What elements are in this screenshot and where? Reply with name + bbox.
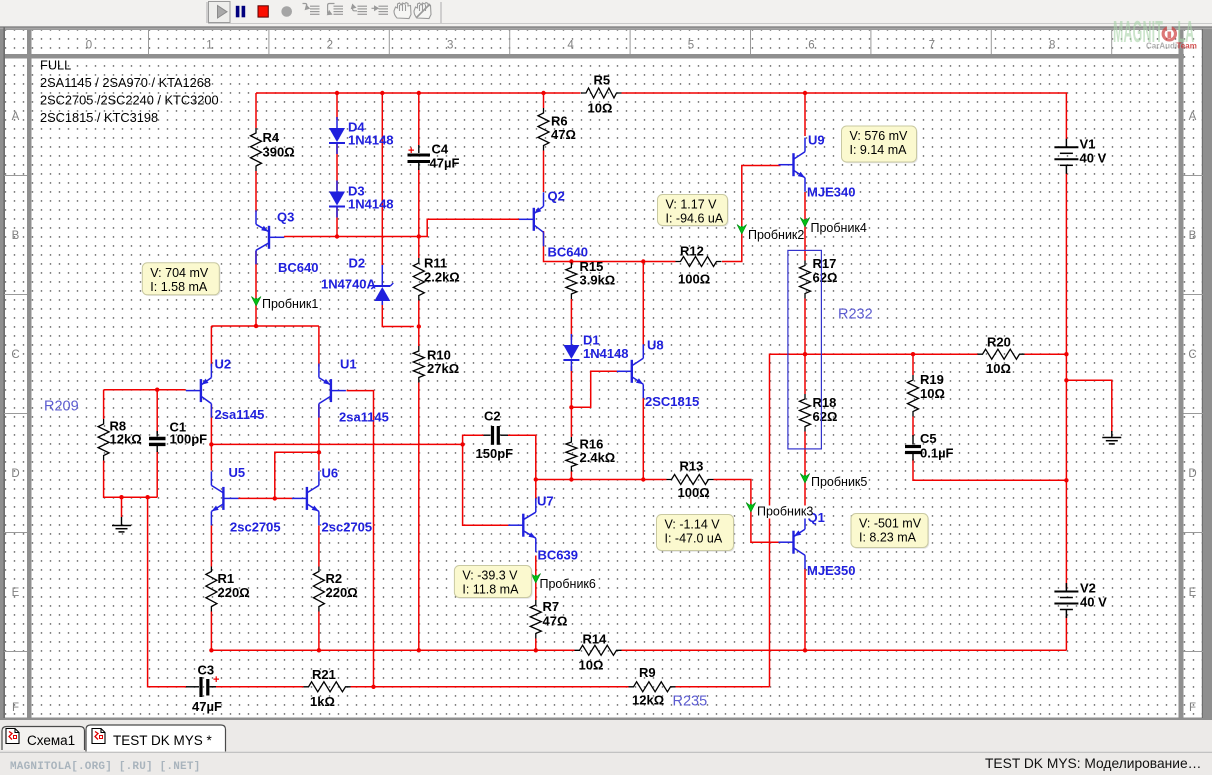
label D3 (348, 184, 394, 212)
svg-text:100Ω: 100Ω (678, 485, 710, 500)
wire: D3 bottom to base net (336, 207, 338, 237)
svg-text:BC639: BC639 (538, 548, 578, 563)
wire: R16 bottom to drive net (570, 472, 572, 480)
wire: U1 collector to mirror node (318, 405, 320, 453)
wire: U1 base to feedback column (347, 391, 374, 687)
resistor R19 (908, 372, 945, 417)
junction: R14 net/Q1 collector (803, 648, 807, 652)
svg-text:B: B (12, 230, 20, 242)
wire: R10 top connection (418, 327, 420, 347)
svg-text:R21: R21 (312, 667, 336, 682)
wire: C1 bottom drop (156, 451, 158, 497)
svg-text:390Ω: 390Ω (263, 145, 295, 160)
svg-text:R9: R9 (639, 665, 656, 680)
svg-text:+: + (408, 145, 414, 157)
svg-text:47µF: 47µF (192, 699, 222, 714)
junction: U2 base net/C1 (155, 388, 159, 392)
net label R235 (673, 694, 708, 710)
probe Пробник3 (746, 503, 813, 519)
svg-text:1N4740A: 1N4740A (321, 277, 377, 292)
svg-text:27kΩ: 27kΩ (427, 361, 459, 376)
svg-text:Пробник2: Пробник2 (748, 228, 804, 242)
wire: U9 collector from rail (804, 93, 806, 136)
junction: R14 net/R10 (417, 648, 421, 652)
wire: R15 top tap (570, 262, 572, 263)
label Q3 (277, 210, 318, 276)
label Q1 (807, 510, 855, 578)
probe Пробник4 (800, 218, 867, 236)
resistor R8 (98, 419, 142, 461)
net label R232 (838, 307, 873, 323)
ruler: row letters (4, 111, 1203, 714)
junction: drive net/U8 emitter (641, 477, 645, 481)
net label R209 (44, 399, 79, 415)
schematic title text block (40, 58, 219, 126)
svg-text:R18: R18 (813, 395, 837, 410)
junction: drive net/C2-U7 (534, 477, 538, 481)
svg-text:47µF: 47µF (430, 156, 460, 171)
svg-text:TEST DK MYS *: TEST DK MYS * (113, 733, 213, 748)
wire: U5 emitter to R1 (210, 526, 212, 567)
resistor R2 (313, 567, 357, 612)
measurement box probe5 (851, 514, 929, 549)
svg-text:I: -47.0 uA: I: -47.0 uA (665, 532, 723, 546)
wire: C2 right to U7 collector node (508, 435, 536, 479)
junction: base net/D3 (335, 234, 339, 238)
wire: U8 collector from R12 net (642, 262, 644, 351)
svg-text:2sc2705: 2sc2705 (230, 520, 281, 535)
svg-text:V: 704 mV: V: 704 mV (150, 266, 209, 280)
wire: Q2 collector to R12/R15 net (544, 231, 676, 262)
svg-text:1N4148: 1N4148 (583, 346, 629, 361)
wire: U2 emitter drop (210, 326, 212, 367)
wire: Q3 collector down to diff pair node (255, 251, 257, 326)
svg-text:5: 5 (688, 40, 694, 52)
wire: U9 emitter to R17 (804, 192, 806, 261)
ground (right rail divider) (1102, 431, 1121, 444)
svg-text:R20: R20 (987, 335, 1011, 350)
svg-text:U5: U5 (229, 465, 246, 480)
wire: R7 bottom to R14 net (535, 639, 537, 651)
diode D4 (1N4148) (329, 117, 345, 154)
label D1 (583, 333, 629, 362)
transistor Q2 (BC640 PNP) (519, 192, 544, 246)
svg-text:U8: U8 (647, 338, 664, 353)
junction: R8 net/C3 drop (145, 495, 149, 499)
svg-text:R235: R235 (673, 694, 708, 710)
diode D1 (1N4148) (563, 334, 579, 371)
svg-text:U2: U2 (215, 357, 232, 372)
wire: U1 emitter drop (318, 326, 320, 367)
svg-text:R14: R14 (583, 632, 608, 647)
wire: D1 bottom to R16 node (570, 366, 572, 407)
wire: R19 top connection (912, 354, 914, 375)
svg-text:U7: U7 (537, 494, 554, 509)
svg-text:C: C (1188, 349, 1196, 361)
label U6 (322, 466, 373, 535)
junction: C2/U7-base corner node (460, 442, 464, 446)
svg-text:C3: C3 (198, 663, 215, 678)
junction: rail/C4 (417, 91, 421, 95)
resistor R15 (566, 259, 615, 299)
resistor R5 (581, 73, 622, 116)
svg-text:1N4148: 1N4148 (348, 197, 394, 212)
svg-text:V1: V1 (1080, 136, 1096, 151)
svg-text:U1: U1 (340, 357, 357, 372)
measurement box probe1 (142, 263, 220, 296)
svg-text:12kΩ: 12kΩ (632, 693, 664, 708)
resistor R14 (575, 632, 622, 673)
wire: mirror node to U6 collector (318, 452, 320, 470)
svg-text:I: 9.14 mA: I: 9.14 mA (850, 143, 908, 157)
resistor R1 (206, 567, 250, 612)
svg-text:A: A (12, 111, 20, 123)
svg-text:V: 1.17 V: V: 1.17 V (666, 198, 718, 212)
wire: output node to R18 top (804, 354, 806, 394)
svg-text:62Ω: 62Ω (813, 409, 838, 424)
svg-text:BC640: BC640 (548, 245, 588, 260)
capacitor C4 (47uF polarized) (408, 142, 460, 171)
junction: feedback tap R21-R9 (371, 685, 375, 689)
svg-text:0: 0 (86, 40, 92, 52)
resistor R9 (629, 665, 676, 708)
wire: R17 bottom to output node (804, 299, 806, 355)
resistor R16 (566, 437, 615, 472)
svg-text:Team: Team (1177, 42, 1197, 51)
label D4 (348, 120, 394, 148)
resistor R21 (304, 667, 351, 709)
svg-text:12kΩ: 12kΩ (110, 432, 142, 447)
wire: U2/U5 collector link (210, 444, 212, 470)
wire: U2 base net (104, 389, 186, 391)
junction: D2-R11-R10 node (417, 324, 421, 328)
svg-text:220Ω: 220Ω (218, 585, 250, 600)
block outline R232 (788, 250, 822, 449)
wire: C2 left lead net (463, 435, 484, 444)
wire: R2 bottom to R14 net (318, 612, 320, 651)
wire: U7 emitter to R7 (535, 556, 537, 601)
wire: R12 right to U9 base riser (722, 166, 781, 262)
toolbar: run/play button (209, 2, 231, 23)
wire: U5-U6 base net (238, 497, 293, 499)
wire: R14 net right part (622, 649, 1067, 651)
wire: U6 emitter to R2 (318, 526, 320, 567)
svg-text:C2: C2 (484, 409, 501, 424)
transistor Q3 (BC640 PNP) (256, 210, 284, 264)
svg-text:R1: R1 (218, 571, 235, 586)
svg-text:10Ω: 10Ω (579, 658, 604, 673)
svg-text:A: A (1189, 111, 1197, 123)
svg-text:2SC1815 / KTC3198: 2SC1815 / KTC3198 (40, 110, 158, 125)
measurement box probe2 (658, 195, 729, 227)
svg-text:40 V: 40 V (1080, 150, 1107, 165)
svg-text:I: 11.8 mA: I: 11.8 mA (462, 583, 519, 597)
wire: R8 column top (103, 390, 105, 419)
wire: D2 branch from rail (381, 93, 383, 265)
resistor R6 (538, 108, 576, 151)
svg-text:I: -94.6 uA: I: -94.6 uA (666, 212, 724, 226)
svg-text:MAGNITOLA[.ORG] [.RU] [.NET]: MAGNITOLA[.ORG] [.RU] [.NET] (10, 761, 200, 773)
wire: U8 base path (571, 371, 620, 407)
svg-text:F: F (1189, 702, 1196, 714)
label U9 (807, 133, 855, 200)
svg-text:R2: R2 (326, 571, 343, 586)
svg-text:10Ω: 10Ω (588, 101, 613, 116)
transistor U6 (2sc2705 NPN) (292, 471, 319, 525)
wire: C5 bottom to rail (913, 460, 1066, 481)
svg-text:40 V: 40 V (1080, 595, 1107, 610)
svg-text:10Ω: 10Ω (986, 361, 1011, 376)
junction: base net/C4-R11 (417, 234, 421, 238)
svg-text:8: 8 (1049, 40, 1055, 52)
svg-text:E: E (1189, 587, 1197, 599)
svg-text:C5: C5 (920, 431, 937, 446)
junction: diff emitters/Q3 (254, 324, 258, 328)
junction: mirror node U1/U6 (317, 450, 321, 454)
svg-text:6: 6 (808, 40, 814, 52)
svg-text:2.4kΩ: 2.4kΩ (580, 450, 616, 465)
svg-text:I: 8.23 mA: I: 8.23 mA (859, 531, 917, 545)
svg-text:Пробник5: Пробник5 (811, 475, 867, 489)
svg-text:Q2: Q2 (548, 189, 565, 204)
svg-text:2SC1815: 2SC1815 (645, 394, 699, 409)
status bar text (10, 756, 1201, 773)
capacitor C5 (0.1uF) (905, 431, 954, 461)
junction: rail/C5 (1064, 478, 1068, 482)
svg-text:2SC2705 /2SC2240 / KTC3200: 2SC2705 /2SC2240 / KTC3200 (40, 93, 219, 108)
watermark MAGNITOLA CarAudio Team (1113, 16, 1194, 50)
dc source V1 (40V) (1054, 136, 1106, 174)
wire: R9 right to output column (676, 686, 770, 688)
svg-text:Пробник1: Пробник1 (262, 297, 318, 311)
svg-text:1kΩ: 1kΩ (310, 694, 335, 709)
wire: R15 bottom to D1 (570, 299, 572, 340)
junction: rail/R20 (1064, 352, 1068, 356)
wire: U7 collector stub (535, 480, 537, 501)
probe Пробник2 (737, 225, 804, 243)
junction: R12 net/U8 collector (641, 259, 645, 263)
svg-text:2sa1145: 2sa1145 (215, 407, 265, 422)
svg-text:MJE350: MJE350 (807, 563, 855, 578)
wire: C3 right to R21 (211, 686, 304, 688)
junction: mirror bases (273, 496, 277, 500)
svg-text:Пробник6: Пробник6 (540, 577, 596, 591)
svg-text:V: -39.3 V: V: -39.3 V (462, 569, 518, 583)
wire: U7 base drop (463, 444, 509, 525)
svg-text:2sc2705: 2sc2705 (322, 520, 373, 535)
wire: Q1 collector down to V2- net (804, 568, 806, 650)
wire: R10 bottom long drop to R14 net (418, 383, 420, 651)
svg-text:100pF: 100pF (170, 432, 208, 447)
svg-text:10Ω: 10Ω (920, 386, 945, 401)
svg-text:TEST DK MYS: Моделирование…: TEST DK MYS: Моделирование… (985, 756, 1201, 771)
junction: rail/D4 (335, 91, 339, 95)
resistor R10 (413, 346, 459, 383)
svg-text:U6: U6 (322, 466, 339, 481)
svg-text:V: -501 mV: V: -501 mV (859, 517, 922, 531)
svg-text:47Ω: 47Ω (551, 127, 576, 142)
wire: R19 bottom to C5 (912, 417, 914, 437)
capacitor C1 (100pF) (149, 420, 207, 453)
svg-text:BC640: BC640 (278, 260, 318, 275)
svg-text:7: 7 (929, 40, 935, 52)
transistor Q1 (MJE350 PNP) (779, 515, 806, 569)
sheet tab: TEST DK MYS * (active) (86, 725, 226, 752)
diode D3 (1N4148) (329, 181, 345, 218)
wire: R20 right to rail (1025, 353, 1067, 355)
toolbar: stop button (258, 6, 268, 17)
junction: rail/D2 (380, 91, 384, 95)
svg-text:D: D (1188, 468, 1196, 480)
svg-text:Схема1: Схема1 (27, 733, 75, 748)
probe Пробник6 (531, 574, 596, 592)
svg-text:R5: R5 (594, 73, 611, 88)
zener diode D2 (1N4740A) (371, 265, 393, 305)
capacitor C2 (150pF) (476, 409, 514, 462)
resistor R18 (800, 394, 838, 432)
junction: R8 net/gnd1 (119, 495, 123, 499)
label U8 (645, 338, 699, 410)
transistor U2 (2sa1145 PNP) (186, 364, 212, 418)
svg-text:C4: C4 (432, 142, 449, 157)
wire: R11 top connection (418, 237, 420, 259)
label D2 (321, 256, 377, 292)
svg-text:0.1µF: 0.1µF (920, 446, 954, 461)
junction: R12 net/R15 (569, 259, 573, 263)
resistor R13 (667, 459, 714, 501)
transistor U8 (2SC1815 NPN) (617, 344, 644, 398)
wire: R8 column bottom (104, 461, 158, 498)
resistor R20 (978, 335, 1025, 377)
wire: R4 bottom to Q3 emitter (255, 171, 257, 212)
ruler: column numbers (86, 29, 1112, 54)
resistor R17 (800, 256, 838, 299)
wire: C1 top drop (156, 390, 158, 434)
transistor U7 (BC639 NPN) (508, 498, 536, 552)
transistor U9 (MJE340 NPN) (779, 138, 806, 192)
wire: R1 bottom to R14 net (210, 612, 212, 651)
svg-text:4: 4 (567, 40, 574, 52)
wire: +rail top from R4 top node to R5 left (256, 92, 581, 94)
wire: output node right to R19/R20 (805, 353, 978, 355)
svg-text:Q3: Q3 (277, 210, 294, 225)
resistor R12 (676, 244, 722, 287)
wire: R13 right to Q1 base (714, 480, 780, 543)
svg-text:V: 576 mV: V: 576 mV (850, 129, 909, 143)
svg-text:V2: V2 (1080, 581, 1096, 596)
svg-text:R4: R4 (263, 130, 280, 145)
junction: rail/gnd2 (1064, 378, 1068, 382)
wire: R21 right to R9 feedback tap (351, 686, 629, 688)
svg-text:Пробник3: Пробник3 (757, 505, 813, 519)
junction: R14 net/R7 (534, 648, 538, 652)
wire: R6 bottom to Q2 emitter (543, 151, 545, 193)
svg-text:Пробник4: Пробник4 (811, 221, 867, 235)
svg-text:R12: R12 (680, 244, 704, 259)
wire: R16 top connection (570, 407, 572, 437)
svg-text:R17: R17 (813, 256, 837, 271)
resistor R4 (251, 128, 295, 171)
svg-text:R232: R232 (838, 307, 873, 323)
label U5 (229, 465, 281, 535)
wire: C4 bottom to base net (418, 169, 420, 237)
wire: diff pair emitters top (211, 325, 319, 327)
svg-text:1: 1 (206, 40, 212, 52)
svg-text:R11: R11 (424, 256, 447, 271)
junction: D1-R16-U8base node (569, 405, 573, 409)
svg-text:1N4148: 1N4148 (348, 133, 394, 148)
svg-text:E: E (12, 587, 20, 599)
toolbar: record (gray circle) (281, 6, 292, 17)
svg-text:D2: D2 (349, 256, 366, 271)
svg-text:2sa1145: 2sa1145 (339, 410, 389, 425)
svg-text:47Ω: 47Ω (543, 614, 568, 629)
wire: +rail from R5 right to V1 top (622, 93, 1067, 139)
junction: rail/U9 (803, 91, 807, 95)
transistor U1 (2sa1145 PNP) (319, 364, 346, 418)
svg-text:I: 1.58 mA: I: 1.58 mA (150, 280, 208, 294)
transistor U5 (2sc2705 NPN) (211, 471, 238, 525)
resistor R7 (530, 599, 567, 639)
wire: U8 emitter to drive net (642, 397, 644, 480)
svg-text:C: C (11, 349, 19, 361)
resistor R11 (413, 256, 459, 301)
wire: drive net U7..R13 (536, 479, 667, 481)
svg-text:R209: R209 (44, 399, 79, 415)
measurement box probe6 (454, 566, 532, 599)
svg-text:B: B (1189, 230, 1197, 242)
wire: R18 bottom to Q1 emitter (804, 432, 806, 512)
junction: output net/R19 (911, 352, 915, 356)
wire: R14 net (211, 649, 574, 651)
ground (left, R8 net) (112, 517, 131, 532)
svg-text:2.2kΩ: 2.2kΩ (424, 270, 460, 285)
junction: drive net/R16 (569, 477, 573, 481)
wire: C4 branch from rail (418, 93, 420, 145)
svg-text:MJE340: MJE340 (807, 185, 855, 200)
svg-text:R19: R19 (920, 372, 944, 387)
wire: base net Q3->Q2 (284, 219, 520, 236)
svg-text:220Ω: 220Ω (326, 585, 358, 600)
wire: mirror bases tie (275, 452, 319, 498)
junction: R14 net/R2 (317, 648, 321, 652)
svg-text:3.9kΩ: 3.9kΩ (580, 273, 616, 288)
wire: D2 bottom to R11/R10 node (382, 302, 414, 327)
svg-text:2SA1145 / 2SA970 / KTA1268: 2SA1145 / 2SA970 / KTA1268 (40, 75, 211, 90)
wire: R11 bottom to node (418, 301, 420, 327)
label U1 (339, 357, 389, 425)
toolbar: pause-at-breakpoint hand icons (394, 3, 411, 19)
measurement box probe4 (842, 126, 918, 163)
dc source V2 (40V) (1054, 581, 1107, 619)
svg-text:FULL: FULL (40, 58, 71, 73)
label Q2 (548, 189, 588, 260)
svg-text:V: -1.14 V: V: -1.14 V (665, 518, 721, 532)
toolbar: step icons (303, 4, 389, 15)
wire: D4-D3 link (336, 144, 338, 190)
wire: V2 bottom to R14 net corner (1065, 616, 1067, 650)
svg-text:R13: R13 (680, 459, 704, 474)
wire: R4 branch from rail (255, 93, 257, 128)
wire: right rail V1- to V2+ (1065, 174, 1067, 589)
wire: D4 branch from rail (336, 93, 338, 120)
svg-text:R7: R7 (543, 599, 560, 614)
toolbar: pause button (236, 6, 245, 17)
measurement box probe3 (657, 515, 735, 552)
svg-text:F: F (12, 702, 19, 714)
wire: output feedback column (770, 354, 806, 687)
wire: gnd2 branch (1066, 380, 1111, 432)
